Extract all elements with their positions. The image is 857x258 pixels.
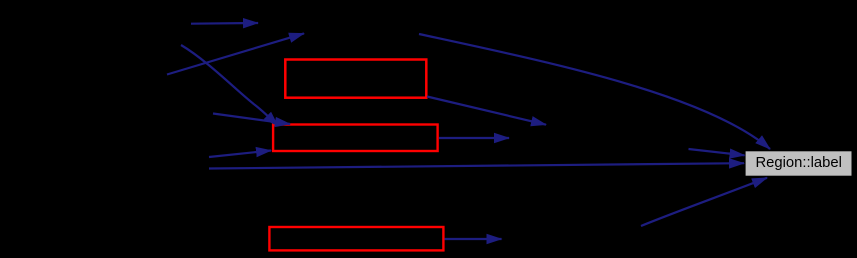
edge E1	[191, 22, 258, 25]
node box3 (red, invisible label)	[269, 227, 443, 250]
edge E5	[209, 151, 271, 158]
edge E10	[689, 149, 745, 155]
node box1 (red, invisible label)	[285, 60, 426, 98]
edge E11 (curve to Region::label bottom)	[641, 178, 767, 226]
node Region::label (current node, grey)	[746, 151, 852, 175]
node box2 (red, invisible label)	[273, 125, 438, 152]
edge E4	[213, 114, 290, 125]
edge E9 (big curve to Region::label top)	[419, 34, 770, 149]
edge E7 (box2 output)	[439, 137, 509, 139]
edge E2	[167, 33, 304, 74]
svg-text:Region::label: Region::label	[756, 155, 842, 171]
edge E3 (curve into box2 top-left)	[181, 45, 278, 126]
edge E6 (long line to Region::label)	[209, 163, 744, 168]
edge E8 (box1 output)	[427, 97, 546, 125]
edge E12 (box3 output)	[445, 238, 502, 240]
